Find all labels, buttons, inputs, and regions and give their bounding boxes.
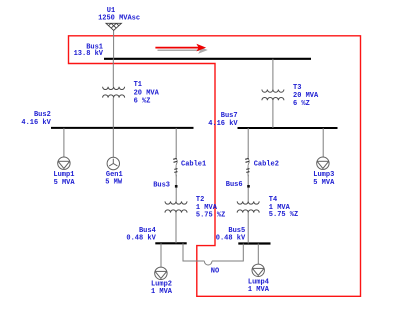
wire Bus2 to Gen1 (112, 128, 114, 157)
utility U1 (106, 23, 121, 30)
wire Bus5 to Lump4 (257, 244, 259, 265)
svg-text:5 MVA: 5 MVA (54, 179, 76, 187)
wire Bus2 to Lump1 (63, 128, 65, 157)
transformer T4 (237, 201, 259, 212)
label Bus2 (21, 111, 51, 127)
svg-text:6 %Z: 6 %Z (293, 100, 310, 108)
label Gen1 (105, 171, 123, 187)
bus Bus1 (104, 58, 311, 60)
label Bus1 (74, 43, 104, 58)
wire Cable1 to T2 through node Bus3 (175, 175, 177, 202)
wire Bus4 to Lump2 (160, 243, 162, 267)
svg-text:T2: T2 (196, 196, 204, 204)
label Lump2 (151, 281, 173, 297)
wire Bus1 to T3 (272, 59, 274, 90)
bus Bus2 (51, 127, 194, 129)
label T3 (293, 84, 319, 108)
lumped load Lump1 (58, 157, 70, 169)
label Lump4 (248, 278, 270, 294)
arrow shadow (158, 46, 208, 54)
svg-text:6 %Z: 6 %Z (134, 97, 151, 105)
svg-text:Lump1: Lump1 (53, 171, 74, 179)
wire T1 to Bus2 (112, 98, 114, 128)
svg-text:1 MVA: 1 MVA (151, 288, 173, 296)
wire Cable2 to T4 through node Bus6 (247, 175, 249, 202)
node Bus3 (175, 185, 178, 188)
wire T4 to Bus5 (247, 213, 249, 244)
wire tie Bus4 side (183, 243, 204, 261)
svg-text:4.16 kV: 4.16 kV (21, 119, 51, 127)
power flow arrow (155, 44, 206, 52)
label Lump1 (53, 171, 75, 187)
svg-text:Cable1: Cable1 (181, 160, 206, 168)
label Bus7 (208, 112, 238, 128)
bus Bus5 (238, 242, 270, 244)
cable Cable2 (245, 157, 249, 177)
svg-text:Bus2: Bus2 (34, 111, 51, 119)
wire Bus7 to Cable2 (247, 128, 249, 157)
wire T2 to Bus4 (175, 213, 177, 244)
transformer T1 (103, 87, 125, 98)
svg-text:20 MVA: 20 MVA (293, 92, 319, 100)
svg-text:5.75 %Z: 5.75 %Z (269, 211, 298, 219)
cable Cable1 (173, 157, 177, 177)
label Bus5 (216, 227, 246, 243)
transformer T3 (262, 90, 284, 101)
node Bus6 (247, 185, 250, 188)
wire tie Bus5 side (212, 244, 243, 262)
svg-text:Bus3: Bus3 (153, 182, 170, 190)
bus Bus7 (238, 127, 338, 129)
svg-text:20 MVA: 20 MVA (134, 89, 160, 97)
svg-text:T3: T3 (293, 84, 301, 92)
svg-text:T1: T1 (134, 81, 142, 89)
svg-text:0.48 kV: 0.48 kV (126, 234, 156, 242)
transformer T2 (165, 201, 187, 212)
lumped load Lump4 (252, 264, 264, 276)
svg-text:4.16 kV: 4.16 kV (208, 120, 238, 128)
svg-text:13.8 kV: 13.8 kV (74, 50, 104, 58)
wire Bus1 to T1 (112, 59, 114, 87)
lumped load Lump3 (317, 157, 329, 169)
generator Gen1 (107, 157, 119, 169)
label T2 (196, 196, 225, 220)
wire Bus7 to Lump3 (322, 128, 324, 157)
svg-text:5.75 %Z: 5.75 %Z (196, 211, 225, 219)
label U1 (98, 7, 140, 22)
label T4 (269, 196, 298, 219)
lumped load Lump2 (155, 267, 167, 279)
svg-text:1250 MVAsc: 1250 MVAsc (98, 14, 140, 22)
label Lump3 (313, 171, 335, 187)
svg-text:1 MVA: 1 MVA (248, 286, 270, 294)
svg-text:Lump3: Lump3 (313, 171, 334, 179)
wire Bus2 to Cable1 (175, 128, 177, 157)
svg-text:NO: NO (211, 267, 219, 275)
fault loop red highlight path (69, 36, 361, 297)
label Bus4 (126, 227, 156, 243)
svg-text:5 MVA: 5 MVA (313, 179, 335, 187)
svg-text:Bus7: Bus7 (221, 112, 238, 120)
svg-text:Cable2: Cable2 (254, 160, 279, 168)
svg-text:0.48 kV: 0.48 kV (216, 234, 246, 242)
tie switch NO arc (204, 261, 212, 265)
bus Bus4 (155, 242, 186, 244)
svg-text:Bus6: Bus6 (226, 181, 243, 189)
label T1 (134, 81, 160, 105)
svg-text:T4: T4 (269, 196, 277, 204)
svg-text:5 MW: 5 MW (105, 179, 123, 187)
wire U1 to Bus1 (113, 30, 115, 58)
wire T3 to Bus7 (272, 100, 274, 128)
